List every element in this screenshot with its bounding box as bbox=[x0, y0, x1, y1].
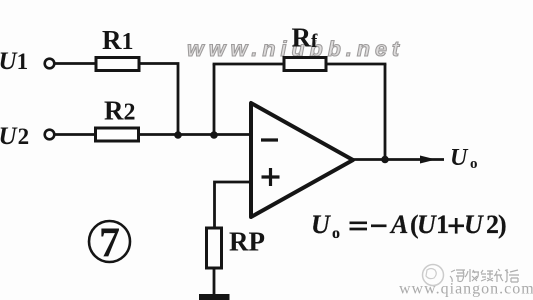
arrowhead on output wire bbox=[420, 156, 436, 164]
svg-text:U: U bbox=[464, 210, 484, 239]
resistor RP bbox=[207, 228, 222, 268]
wire R2 to op-amp inverting input bbox=[139, 133, 252, 136]
ground bbox=[199, 294, 230, 300]
resistor Rf bbox=[284, 58, 326, 71]
junction node output bbox=[381, 156, 389, 164]
svg-text:U2: U2 bbox=[0, 123, 29, 150]
wire R1 to node A (corner) bbox=[139, 64, 178, 136]
svg-text:R2: R2 bbox=[104, 96, 136, 126]
svg-text:): ) bbox=[498, 210, 507, 239]
svg-text:U: U bbox=[417, 210, 437, 239]
resistor R2 bbox=[96, 128, 139, 141]
op-amp U1 bbox=[251, 103, 353, 217]
resistor R1 bbox=[96, 58, 139, 71]
svg-text:7: 7 bbox=[99, 221, 120, 267]
svg-text:U1: U1 bbox=[0, 48, 28, 75]
svg-text:RP: RP bbox=[229, 227, 265, 257]
terminal U2 bbox=[45, 130, 55, 140]
formula Uo = -A(U1+U2) bbox=[311, 210, 507, 242]
svg-text:o: o bbox=[470, 156, 478, 172]
wire feedback vertical left bbox=[213, 64, 216, 135]
watermark chinese text 汽修领航者 bbox=[450, 269, 519, 282]
svg-text:1: 1 bbox=[436, 210, 449, 239]
svg-text:U: U bbox=[450, 145, 469, 171]
svg-text:A: A bbox=[389, 210, 408, 239]
svg-text:www.qiangon.com: www.qiangon.com bbox=[399, 281, 533, 298]
wire feedback top right segment bbox=[326, 63, 386, 66]
figure number 7 (circled) bbox=[89, 221, 130, 262]
junction node A bbox=[174, 131, 182, 139]
wire feedback vertical right bbox=[384, 64, 387, 160]
junction node B bbox=[210, 131, 218, 139]
terminal U1 bbox=[45, 59, 55, 69]
wire U2 terminal to R2 bbox=[55, 133, 96, 136]
op-amp inverting input symbol bbox=[261, 138, 278, 141]
wire RP to ground bbox=[213, 268, 216, 295]
watermark logo circle bbox=[423, 265, 444, 286]
wire op-amp plus input to RP bbox=[215, 182, 252, 228]
op-amp non-inverting input symbol bbox=[262, 175, 280, 178]
wire feedback top left segment bbox=[213, 63, 284, 66]
wire U1 terminal to R1 bbox=[55, 62, 96, 65]
svg-text:o: o bbox=[332, 225, 340, 242]
svg-text:R1: R1 bbox=[102, 25, 134, 55]
wire op-amp output bbox=[353, 158, 444, 161]
svg-text:U: U bbox=[311, 210, 331, 239]
